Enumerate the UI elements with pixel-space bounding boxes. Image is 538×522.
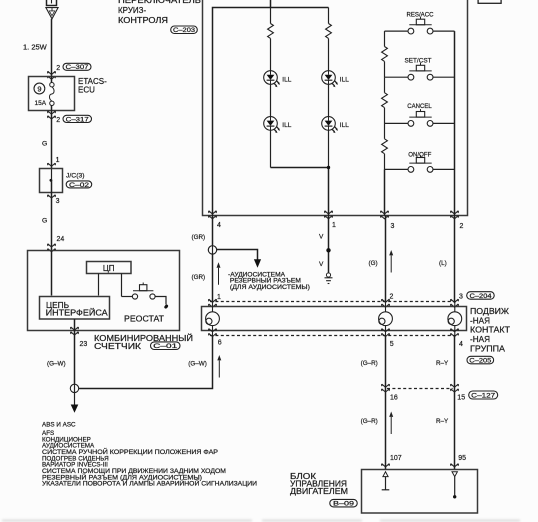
coil 1 (206, 301, 220, 335)
svg-text:2: 2 (460, 223, 464, 230)
consumers list text (42, 422, 258, 488)
svg-text:V: V (319, 234, 324, 241)
svg-text:9: 9 (37, 85, 41, 94)
svg-text:2: 2 (390, 294, 394, 301)
branch to audio system (217, 250, 258, 261)
svg-text:ЦП: ЦП (103, 264, 115, 273)
svg-text:КОНТАКТ: КОНТАКТ (470, 326, 510, 335)
svg-text:3: 3 (459, 294, 463, 301)
right column wire to pin 2 (454, 31, 456, 215)
audio system note text (228, 272, 310, 291)
wire from clock spring pin 6 to splice (79, 336, 213, 389)
junction connector J/C(3) box (40, 169, 63, 193)
svg-text:(ДЛЯ АУДИОСИСТЕМЫ): (ДЛЯ АУДИОСИСТЕМЫ) (230, 285, 310, 291)
J/C(3) pin 1 terminal (48, 163, 56, 166)
junction dot (327, 166, 330, 169)
switch pin 2 terminal (451, 211, 459, 219)
svg-text:C–307: C–307 (66, 64, 90, 71)
wire GR from pin 4 (212, 216, 214, 246)
faint cropped footer text remnant (2, 519, 520, 521)
C-205 pin 6 terminal (209, 329, 217, 337)
svg-text:24: 24 (57, 236, 65, 243)
svg-text:ГРУППА: ГРУППА (470, 344, 506, 353)
wire G from J/C(3) to combination meter (51, 199, 53, 250)
svg-text:C–02: C–02 (69, 182, 90, 189)
connector C-205 dashed line (210, 335, 458, 337)
splice junction circle (70, 384, 78, 392)
svg-text:2: 2 (56, 65, 60, 72)
connector C-127 label oval (469, 391, 498, 399)
coil 3 (448, 301, 462, 335)
ILL column 2 wire between LEDs (328, 84, 330, 116)
rheostat switch (122, 296, 133, 298)
LED ILL 1a (264, 71, 280, 88)
svg-text:(GR): (GR) (192, 234, 206, 241)
resistor R3 (384, 123, 386, 138)
wire to pin 3 (384, 169, 386, 215)
connector C-204 dashed line (210, 301, 458, 303)
meter pin 24 terminals (48, 244, 56, 252)
svg-text:ECU: ECU (78, 85, 95, 94)
svg-text:УКАЗАТЕЛИ ПОВОРОТА И ЛАМПЫ АВА: УКАЗАТЕЛИ ПОВОРОТА И ЛАМПЫ АВАРИЙНОЙ СИГ… (42, 479, 258, 488)
C-204 pin 3 label and terminal (451, 299, 459, 307)
svg-text:-НАЯ: -НАЯ (470, 317, 490, 326)
svg-text:ABS И ASC: ABS И ASC (42, 422, 76, 429)
svg-text:(G–R): (G–R) (361, 360, 378, 367)
resistor R2 (384, 77, 386, 93)
meter pin 23 wire (74, 319, 76, 384)
wire GR continues to clock spring (212, 254, 214, 301)
svg-text:СЧЕТЧИК: СЧЕТЧИК (94, 342, 141, 351)
ILL column 1 lower wire (270, 130, 272, 167)
connector C-317: terminals (48, 111, 56, 119)
resistor ILL column 1 (268, 24, 274, 39)
svg-text:ДВИГАТЕЛЕМ: ДВИГАТЕЛЕМ (290, 487, 348, 496)
power feed connector box (cropped at top) (47, 0, 57, 6)
svg-text:1. 25W: 1. 25W (23, 43, 48, 52)
svg-text:15: 15 (457, 395, 465, 402)
wire G from pin 3 to clock spring (385, 216, 387, 302)
ECU pin 95 terminal (451, 464, 459, 467)
svg-text:-НАЯ: -НАЯ (470, 335, 490, 344)
ECU internal input symbol (pin 107) (383, 472, 388, 477)
ILL column 2 upper wire (328, 8, 330, 24)
wire into interface circuit (51, 251, 53, 296)
svg-text:(G–W): (G–W) (188, 361, 207, 368)
meter pin 23 terminals (71, 327, 79, 335)
svg-text:ILL: ILL (282, 76, 291, 83)
svg-text:G: G (42, 141, 47, 148)
svg-text:4: 4 (217, 222, 221, 229)
resistor chain column wire (384, 31, 386, 46)
wire G from ETACS-ECU to J/C(3) (51, 111, 53, 169)
ground (325, 273, 333, 284)
small connector box top right (cropped) (478, 0, 501, 3)
svg-text:-АУДИОСИСТЕМА: -АУДИОСИСТЕМА (228, 272, 285, 278)
svg-text:G: G (42, 217, 47, 224)
svg-text:15A: 15A (35, 100, 47, 107)
svg-text:J/C(3): J/C(3) (66, 172, 85, 179)
C-127 terminals on R-Y wire (451, 384, 459, 392)
svg-text:1: 1 (217, 294, 221, 301)
fusible link double triangle (46, 8, 58, 19)
svg-text:РЕЗЕРВНЫЙ РАЗЪЕМ: РЕЗЕРВНЫЙ РАЗЪЕМ (230, 277, 301, 285)
ILL column 1 wire to LED (270, 39, 272, 71)
wire L from pin 2 to clock spring (454, 216, 456, 302)
svg-text:23: 23 (80, 341, 88, 348)
svg-text:R–Y: R–Y (436, 360, 449, 367)
svg-text:C–01: C–01 (153, 343, 178, 350)
label ПОДВИЖНАЯ КОНТАКТНАЯ ГРУППА (470, 307, 510, 353)
combination meter box (28, 251, 180, 331)
svg-text:КОНТРОЛЯ: КОНТРОЛЯ (118, 16, 168, 25)
svg-text:(G–R): (G–R) (361, 418, 378, 425)
switch ON/OFF (408, 155, 433, 172)
switch RES/ACC (408, 17, 433, 34)
svg-text:КРУИЗ-: КРУИЗ- (118, 6, 146, 15)
svg-text:ПОДВИЖ: ПОДВИЖ (470, 307, 510, 316)
svg-text:(G–W): (G–W) (47, 361, 66, 368)
fuse element (wire through box) (51, 77, 53, 83)
ILL column 2 wire to LED (328, 39, 330, 71)
connector C-205 label oval (467, 356, 494, 364)
svg-text:V: V (319, 261, 324, 268)
svg-text:SET/CST: SET/CST (405, 58, 432, 65)
LED ILL 2b (322, 117, 338, 134)
ECU internal output symbol (pin 95) (452, 472, 457, 477)
ILL join wire to pin 1 (271, 168, 329, 216)
switch CANCEL (408, 109, 433, 126)
splice circle on GR wire (208, 246, 216, 254)
resistor ILL column 2 (326, 24, 332, 39)
C-127 terminals on G-R wire (382, 384, 390, 392)
J/C(3) pin 3 terminal (51, 180, 53, 199)
connector C-203 label (171, 26, 198, 34)
ILL column 1 upper wire (270, 8, 272, 24)
svg-text:(GR): (GR) (192, 274, 206, 281)
svg-text:ИНТЕРФЕЙСА: ИНТЕРФЕЙСА (46, 309, 109, 318)
connector C-204 label oval (467, 292, 495, 300)
svg-text:1: 1 (56, 157, 60, 164)
svg-text:(G): (G) (369, 260, 378, 267)
svg-text:6: 6 (218, 340, 222, 347)
C-205 pin 5 terminal (382, 329, 390, 337)
LED ILL 1b (264, 117, 280, 134)
interface circuit box (40, 297, 110, 320)
clock spring box (202, 307, 467, 331)
connector C-01 label (151, 342, 181, 350)
illumination feed wire from top (270, 0, 272, 8)
svg-text:C–205: C–205 (469, 358, 492, 365)
svg-text:R–Y: R–Y (436, 418, 449, 425)
ILL column 1 wire between LEDs (270, 84, 272, 116)
wire G-R to ECU (385, 389, 387, 470)
svg-text:ILL: ILL (340, 76, 349, 83)
resistor R1 (382, 47, 388, 62)
CPU to interface circuit wires (98, 274, 100, 296)
wire R-Y to ECU (454, 389, 456, 470)
ETACS-ECU box (29, 77, 75, 111)
svg-text:C–317: C–317 (66, 116, 90, 123)
connector B-09 label oval (330, 499, 357, 507)
ECU pin 107 terminal (382, 464, 390, 467)
illumination rail (213, 8, 329, 216)
svg-text:1: 1 (332, 222, 336, 229)
engine control unit box (362, 470, 478, 514)
wire V from pin 1 to ground (328, 216, 330, 273)
svg-text:4: 4 (459, 341, 463, 348)
ground lead arrow below splice (74, 393, 76, 406)
label БЛОК УПРАВЛЕНИЯ ДВИГАТЕЛЕМ (290, 472, 348, 496)
connector C-127 dashed line (387, 388, 453, 390)
svg-text:107: 107 (390, 455, 402, 462)
direction arrow up beside G wire (389, 250, 393, 273)
svg-text:2: 2 (56, 117, 60, 124)
CPU box (87, 262, 132, 274)
splice dot on V wire (326, 248, 330, 252)
svg-text:C–127: C–127 (471, 393, 496, 400)
ILL column 2 lower wire (328, 130, 330, 167)
switch pin 3 terminal (381, 211, 389, 219)
svg-text:5: 5 (390, 341, 394, 348)
svg-text:(L): (L) (439, 260, 447, 267)
direction arrow up beside G-W wire (217, 355, 221, 378)
LED ILL 2a (322, 71, 338, 88)
C-205 pin 4 terminal (451, 329, 459, 337)
connector C-307: terminals (48, 71, 56, 79)
svg-text:16: 16 (390, 395, 398, 402)
C-204 pin 2 label and terminal (382, 299, 390, 307)
svg-text:3: 3 (391, 223, 395, 230)
switch pin 4 terminal (209, 211, 217, 219)
svg-text:ILL: ILL (340, 122, 349, 129)
switch SET/CST (408, 63, 433, 80)
svg-text:ILL: ILL (282, 122, 291, 129)
svg-text:CANCEL: CANCEL (407, 103, 432, 110)
svg-text:95: 95 (458, 455, 466, 462)
svg-text:РЕОСТАТ: РЕОСТАТ (124, 315, 164, 324)
switch pin 1 terminal (325, 211, 333, 219)
wire W from fusible link down to ETACS-ECU (51, 19, 53, 77)
wire G-R from clock spring pin 5 (385, 336, 387, 389)
C-204 pin 1 label and terminal (209, 299, 217, 307)
direction arrow up beside G-R wire (389, 412, 393, 435)
coil 2 (379, 301, 393, 335)
svg-text:C–204: C–204 (470, 293, 493, 300)
svg-text:ПЕРЕКЛЮЧАТЕЛЬ: ПЕРЕКЛЮЧАТЕЛЬ (118, 0, 201, 5)
fuse number circle 9 (34, 83, 45, 94)
direction arrow up beside GR wire (217, 262, 221, 285)
cruise control switch box outline (cropped at top) (203, 0, 468, 216)
wire R-Y from clock spring pin 4 (454, 336, 456, 389)
svg-text:B–09: B–09 (333, 501, 355, 508)
svg-text:3: 3 (56, 198, 60, 205)
svg-text:C–203: C–203 (173, 27, 196, 34)
